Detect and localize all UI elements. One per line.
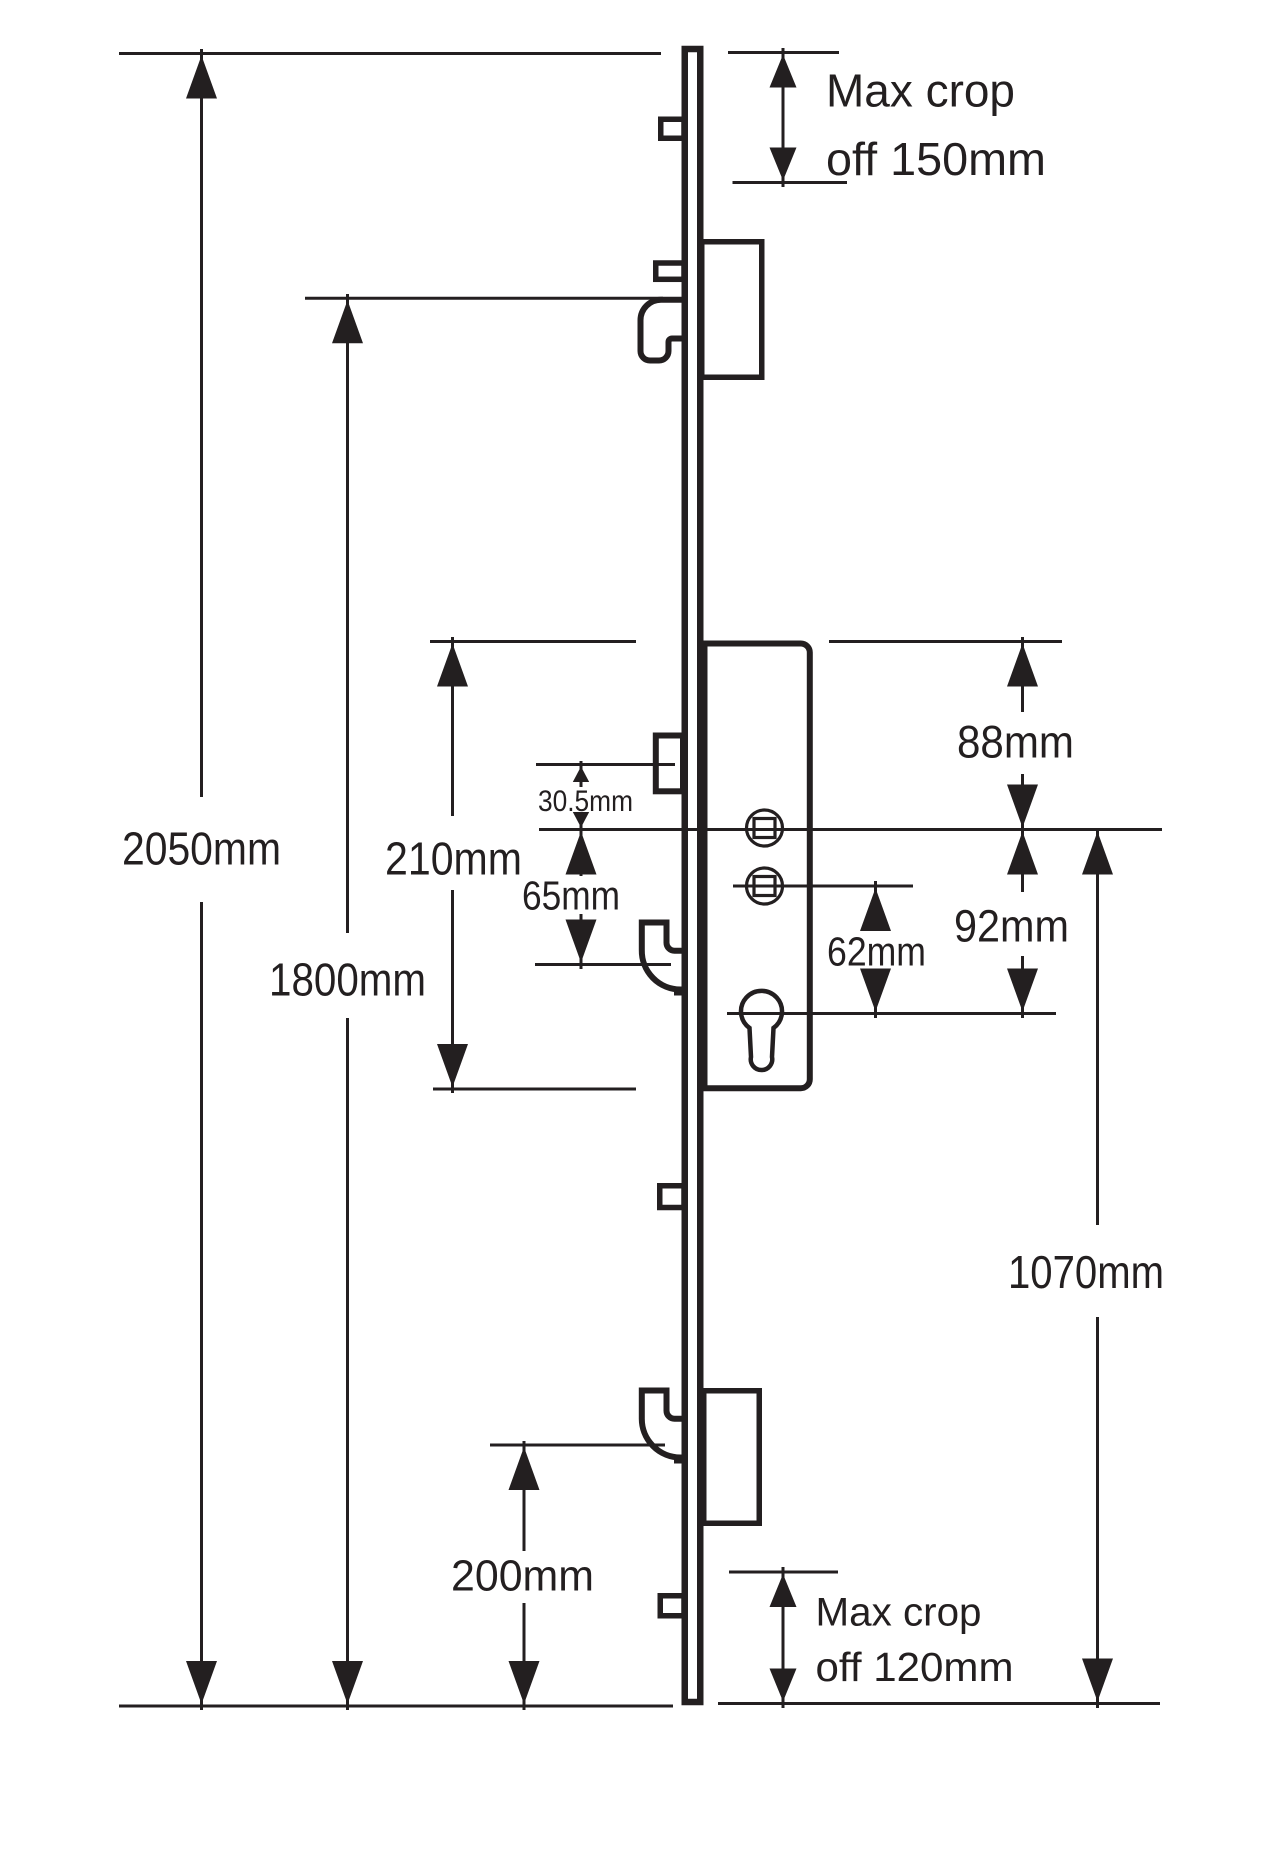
svg-text:off 150mm: off 150mm: [826, 133, 1046, 185]
svg-text:off 120mm: off 120mm: [816, 1644, 1014, 1690]
top datum line: [119, 52, 661, 55]
latch bolt snib: [656, 736, 683, 792]
65mm bottom line: [535, 963, 671, 966]
max crop 120 arrow: [782, 1567, 785, 1708]
case top left line: [430, 640, 636, 643]
210mm dimension arrow: [451, 637, 454, 816]
svg-text:92mm: 92mm: [954, 901, 1069, 952]
max crop 150 top line: [728, 51, 839, 54]
bottom datum line right: [718, 1702, 1160, 1705]
top keep box: [702, 242, 762, 378]
svg-text:88mm: 88mm: [957, 717, 1074, 768]
30.5mm top line: [536, 763, 675, 766]
88mm dimension arrow: [1021, 637, 1024, 712]
1800mm datum line: [305, 297, 663, 300]
svg-text:1070mm: 1070mm: [1008, 1246, 1164, 1298]
lower spindle line: [733, 885, 913, 888]
lock faceplate strip: [685, 49, 701, 1702]
case bottom left line: [433, 1088, 636, 1091]
62mm dimension arrow: [874, 881, 877, 930]
svg-text:30.5mm: 30.5mm: [538, 785, 633, 818]
euro cylinder cut-out: [741, 991, 782, 1070]
200mm top line: [490, 1444, 665, 1447]
svg-text:200mm: 200mm: [451, 1552, 594, 1601]
second roller cam tab: [656, 263, 684, 279]
svg-text:1800mm: 1800mm: [269, 954, 426, 1006]
92mm dimension arrow: [1021, 830, 1024, 893]
middle hook bolt: [642, 923, 686, 990]
upper spindle follower: [747, 810, 783, 846]
bottom datum line left: [119, 1705, 673, 1708]
max crop 120 top line: [729, 1571, 838, 1574]
centre spindle datum line: [539, 828, 1162, 831]
1800mm dimension arrow: [346, 294, 349, 933]
svg-text:62mm: 62mm: [827, 929, 926, 975]
case top right line: [829, 640, 1062, 643]
top hook bolt: [641, 300, 687, 361]
bottom roller cam tab: [660, 1596, 684, 1616]
max crop 150 arrow: [782, 48, 785, 187]
centre gearbox lock case: [705, 644, 810, 1089]
65mm dimension arrow: [580, 830, 583, 877]
svg-text:2050mm: 2050mm: [122, 823, 281, 875]
lower spindle follower: [747, 868, 783, 904]
bottom keep box: [704, 1391, 760, 1524]
max crop 150 bottom line: [733, 181, 848, 184]
1070mm dimension arrow: [1096, 830, 1099, 1226]
200mm dimension arrow: [523, 1441, 526, 1551]
svg-text:Max crop: Max crop: [816, 1591, 982, 1635]
middle roller cam tab: [660, 1186, 684, 1208]
euro cylinder line: [727, 1012, 1056, 1015]
svg-text:65mm: 65mm: [522, 873, 620, 919]
bottom hook bolt: [642, 1391, 686, 1458]
2050mm dimension arrow: [200, 49, 203, 797]
svg-text:210mm: 210mm: [385, 833, 522, 885]
top roller cam tab: [661, 119, 684, 138]
30.5mm dimension arrow: [580, 761, 583, 787]
svg-text:Max crop: Max crop: [826, 65, 1015, 117]
